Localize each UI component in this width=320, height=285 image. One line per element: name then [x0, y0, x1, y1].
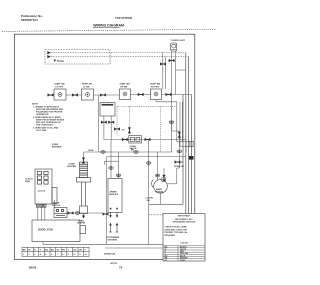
wire valve to bottom run [148, 140, 150, 245]
svg-text:5995287104: 5995287104 [21, 18, 38, 22]
wire switch B to switch C [94, 94, 120, 96]
svg-text:Timer: Timer [57, 59, 64, 63]
svg-text:SURF SW: SURF SW [150, 84, 161, 86]
wire dashed drop right [159, 106, 161, 152]
connector door switch 2 [75, 212, 80, 215]
svg-text:THE OVEN BODY.: THE OVEN BODY. [36, 124, 54, 126]
wire bus vertical R [176, 102, 178, 142]
svg-text:IGNITERS: IGNITERS [108, 239, 118, 241]
legend box [163, 214, 205, 262]
svg-text:SURF SW: SURF SW [82, 84, 93, 86]
wire control right lead [110, 116, 112, 140]
svg-text:4: 4 [40, 253, 41, 256]
svg-text:11: 11 [79, 254, 81, 256]
wire right bus vertical W [182, 95, 184, 205]
clock assembly [35, 169, 57, 204]
wire clock prong 3 [44, 204, 46, 220]
surface light switch D [151, 89, 162, 100]
connector on lamp return [169, 121, 174, 124]
wire control left lead [103, 116, 105, 140]
connector on motor branch [178, 132, 181, 138]
wire oven valve run [104, 139, 186, 141]
svg-text:10: 10 [73, 254, 75, 256]
svg-text:105°C MIN.: 105°C MIN. [36, 130, 47, 132]
connector on neutral run left [101, 151, 106, 154]
svg-text:TGF317PCD: TGF317PCD [115, 16, 133, 20]
surface light switch B [82, 89, 94, 100]
svg-text:BK: BK [23, 249, 27, 251]
connector switch C-D [138, 93, 144, 96]
wire jog to door lock switch [177, 141, 190, 143]
connector spark feed right [116, 174, 121, 177]
svg-text:COLOR: COLOR [180, 243, 188, 245]
svg-text:REQUIRED.: REQUIRED. [165, 235, 177, 237]
svg-text:GROUNDING DEVICES: GROUNDING DEVICES [173, 222, 196, 224]
svg-text:CHECK FOR ALL WIRE: CHECK FOR ALL WIRE [165, 226, 188, 229]
connector motor feed right [162, 175, 165, 181]
connector with label [175, 160, 181, 163]
wire switch D bottom stub [155, 100, 157, 102]
timer dashed box [45, 50, 110, 65]
wire timer L1 drop to switch D [162, 53, 164, 89]
svg-text:DOOR LATCH: DOOR LATCH [38, 229, 53, 232]
connector spark feed left [109, 167, 114, 170]
wire switch C to switch D [131, 94, 151, 96]
spark gap electrodes [109, 213, 119, 233]
timer terminal symbols [47, 51, 51, 58]
svg-text:RT FRT: RT FRT [151, 86, 159, 88]
svg-text:NOTE:: NOTE: [32, 104, 39, 106]
wire jog to motor branch [172, 130, 180, 132]
wire drop to oven igniter [83, 152, 85, 161]
wire motor feed right [163, 168, 165, 180]
svg-text:LT RR: LT RR [83, 86, 90, 88]
connector switch D out [166, 93, 172, 96]
svg-text:8: 8 [62, 254, 63, 256]
wire to motor right terminal [167, 183, 177, 185]
connector on neutral run right [134, 151, 139, 154]
wire bus vertical BU [181, 102, 183, 142]
wire lamp jumper to bus [176, 69, 186, 71]
wire clock prong 2 [40, 204, 42, 220]
svg-text:RT RR: RT RR [121, 86, 128, 88]
wire motor branch vertical [178, 131, 180, 168]
svg-text:NP273: NP273 [111, 263, 118, 265]
wire bracket to spark module [105, 160, 119, 162]
right small switch [190, 141, 193, 146]
svg-text:IGNITER: IGNITER [77, 223, 86, 225]
wire switch A to switch B [66, 94, 82, 96]
connector control left [101, 121, 107, 124]
wire motor bottom run [149, 203, 183, 205]
wire motor feed vertical [176, 168, 178, 184]
igniter body [77, 162, 91, 214]
connector door switch to bus junction [103, 212, 109, 215]
connector on dashed [114, 127, 120, 130]
svg-text:OPERATION.: OPERATION. [36, 113, 49, 116]
wire clock notch to door switch [54, 200, 56, 208]
connector switch A-B [72, 93, 78, 96]
svg-text:72: 72 [119, 265, 123, 269]
svg-text:1: 1 [23, 254, 24, 256]
prong pins [37, 204, 46, 207]
wire lower neutral run [107, 156, 186, 158]
svg-text:IMPORTANT: IMPORTANT [178, 215, 191, 218]
gas valve [129, 136, 142, 143]
wire motor bottom lead [160, 193, 162, 204]
svg-text:6: 6 [51, 254, 52, 256]
connector ellipse right bus [177, 150, 182, 153]
wire color table strip [22, 247, 89, 256]
connector P3 border stub [48, 93, 54, 96]
svg-text:12: 12 [85, 254, 87, 256]
wire lamp right lead [175, 51, 177, 95]
wire lamp return drop [171, 123, 173, 132]
svg-text:WIRING DIAGRAM: WIRING DIAGRAM [93, 24, 124, 28]
svg-text:SWITCH: SWITCH [52, 205, 61, 207]
svg-text:BR: BR [51, 249, 55, 251]
right bus vertical from L1 [185, 53, 187, 215]
small connector above valve [128, 127, 131, 133]
svg-text:SPARK: SPARK [110, 191, 118, 194]
wire jog to door lock switch lower [180, 146, 190, 148]
wire latch bottom stub [42, 242, 44, 245]
svg-text:7: 7 [57, 254, 58, 256]
wire motor branch jog [177, 167, 180, 169]
svg-text:ASM: ASM [25, 180, 30, 183]
svg-text:16GA: 16GA [88, 149, 94, 152]
spark module [108, 179, 122, 213]
svg-text:3: 3 [34, 254, 35, 256]
bottom jumper wire [105, 247, 163, 249]
svg-text:5: 5 [45, 254, 46, 256]
svg-text:SW: SW [147, 200, 150, 202]
wire latch bottom run [43, 243, 107, 245]
svg-text:BURNER: BURNER [52, 147, 62, 149]
wire N dashed from timer [49, 56, 189, 58]
svg-text:LT FRT: LT FRT [56, 86, 64, 88]
wire door switch run [67, 212, 103, 214]
svg-text:PR: PR [62, 249, 65, 251]
right bus vertical from N [188, 57, 190, 245]
wire door switch drop [106, 157, 108, 245]
svg-text:SIZES AND CONN. FOR: SIZES AND CONN. FOR [165, 228, 188, 231]
svg-text:SURF SW: SURF SW [55, 84, 66, 86]
connector switch B-C [100, 93, 106, 96]
igniter arrow [83, 214, 85, 217]
perforation dashed line [2, 29, 216, 31]
wire dashed drop to valve [128, 106, 130, 135]
wire dashed drop left [116, 106, 118, 135]
svg-text:RECONNECT ALL: RECONNECT ALL [175, 218, 193, 221]
svg-text:PROPER TYPE AND GA.: PROPER TYPE AND GA. [165, 231, 189, 234]
connector on feed [160, 62, 166, 65]
svg-text:DOOR SW: DOOR SW [174, 166, 184, 168]
svg-text:OR: OR [79, 249, 83, 251]
wire lamp left lead [171, 51, 173, 152]
connector control right [108, 121, 114, 124]
svg-text:9: 9 [68, 254, 69, 256]
wire from switch B down [97, 95, 99, 152]
wire timer N drop to switch D [164, 57, 166, 89]
wire bottom horizontal run [107, 243, 189, 245]
svg-text:IGNITER: IGNITER [67, 166, 76, 168]
connector door switch 1 [68, 211, 74, 214]
wire L1 dashed from timer [49, 52, 186, 54]
gas valve connector right [145, 138, 151, 141]
diagram outer border [15, 34, 195, 259]
wire switch D to right bus [162, 94, 192, 96]
wire dashed run above legend [149, 214, 192, 216]
svg-text:BU: BU [45, 249, 49, 251]
wire valve run drop [185, 140, 187, 153]
wire switch D bottom run [156, 101, 177, 103]
wire dashed console run [117, 105, 177, 107]
svg-text:MOTOR: MOTOR [155, 192, 163, 194]
svg-text:GRAY: GRAY [180, 259, 186, 262]
wire motor feed left [157, 152, 159, 180]
svg-text:MODULE: MODULE [109, 194, 119, 196]
light switch connector [169, 59, 175, 62]
igniter connector [82, 158, 85, 164]
wire spark module feed right [118, 152, 120, 179]
timer label [54, 60, 57, 63]
wire border stub to switch A [47, 94, 54, 96]
wire right bus vertical BK [191, 95, 193, 215]
NOTES block [32, 104, 65, 132]
svg-text:SURF SW: SURF SW [120, 84, 131, 86]
oven door motor circle [152, 177, 168, 193]
wire bracket drop [104, 161, 106, 165]
connector motor feed left [155, 174, 160, 177]
svg-text:09/04: 09/04 [29, 266, 37, 270]
wire main neutral run [84, 151, 173, 153]
spark switch module [100, 103, 115, 117]
svg-text:GN: GN [73, 249, 77, 251]
oven light lamp [171, 43, 177, 51]
svg-text:CLOCK: CLOCK [38, 191, 46, 193]
svg-text:BAKE: BAKE [156, 188, 163, 191]
svg-text:W: W [28, 249, 30, 251]
surface light switch A [54, 89, 66, 100]
wire bus vertical Y [179, 102, 181, 147]
svg-text:2: 2 [29, 254, 30, 256]
wire spark module feed left [110, 140, 112, 179]
connector on valve drop [146, 162, 151, 165]
surface light switch C [120, 89, 131, 100]
latch assembly box [32, 220, 86, 242]
wire clock prong 1 [37, 204, 39, 220]
svg-text:* OVEN LIGHT: * OVEN LIGHT [170, 40, 185, 42]
svg-text:5995287104: 5995287104 [104, 252, 116, 255]
gas valve connector left [122, 138, 128, 141]
